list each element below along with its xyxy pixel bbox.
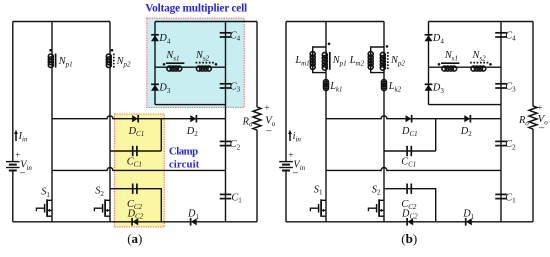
capacitor C_C2 (a) [132,184,134,194]
svg-text:Iin: Iin [18,131,28,143]
diode D_C2 (a) on bottom rail [132,218,138,225]
polarity dot N_p1 (b) [328,43,331,46]
inductor L_k2 (b) [382,80,387,85]
svg-text:C2: C2 [230,139,241,151]
diode D4 (b) [425,34,433,36]
wire: (a) multiplier cell top rail to output [155,21,257,23]
svg-text:C4: C4 [505,30,516,42]
wire: (b) output rail [532,22,534,107]
wire: clamp junction vertical D_C1-C_C1 (a) [160,119,162,151]
svg-text:D1: D1 [187,209,199,221]
svg-text:C1: C1 [505,192,516,204]
svg-text:S2: S2 [372,184,381,196]
svg-text:+: + [288,150,293,160]
svg-text:D1: D1 [462,209,474,221]
svg-text:(b): (b) [401,231,417,246]
svg-text:Ro: Ro [518,115,529,127]
polarity dot N_s1 (a) [163,63,166,66]
switch S2 (b) [378,199,380,217]
wire: (a) multiplier bottom row [155,104,226,106]
current arrow I_in (a) [15,132,17,141]
wire C: middle output row (b) with hop over S2 branch [326,167,501,170]
capacitor C3 (a) [220,83,232,85]
diode D4 (a) [151,34,159,36]
wire C: middle output row (a) with hop over S2 branch [52,168,226,171]
diode D_C1 (b) [406,115,412,122]
winding N_p1 (a) [48,54,53,59]
polarity dot N_p2 (b) [386,45,389,48]
wire B: C_C1 row (b) [384,150,436,152]
svg-text:Ro: Ro [242,116,253,128]
wire: (b) magnetizing branch L_m1 [313,47,326,73]
svg-text:Np2: Np2 [390,55,405,67]
wire: (a) phase-2 branch vertical (N_p2 / S2) [109,22,111,222]
winding N_p1 (b) [322,52,327,57]
wire: (b) multiplier middle row [429,66,502,68]
svg-text:Lk1: Lk1 [329,81,342,93]
wire: (a) capacitor rail [225,22,227,222]
wire A: clamp/diode row (b) with hop over S2 branch [326,116,501,119]
capacitor C1 (b) [495,193,507,195]
svg-text:C2: C2 [505,139,516,151]
wire: clamp junction vertical (b) [435,119,437,151]
capacitor C2 (a) [220,140,232,142]
svg-text:Lm2: Lm2 [349,55,365,67]
current arrow i_in (b) [289,132,291,141]
svg-text:+: + [264,103,269,113]
svg-text:D3: D3 [432,83,444,95]
svg-text:Np1: Np1 [58,56,73,68]
svg-text:Lm1: Lm1 [294,55,309,67]
wire: (a) multiplier middle row [155,66,226,68]
load resistor R_o (a) [253,107,261,130]
switch S1 (b) [320,199,322,217]
switch S1 (a) [46,199,48,217]
load resistor R_o (b) [529,106,537,129]
diode D3 (a) [151,83,159,85]
winding N_s1 (a) [167,66,172,71]
wire: (a) phase-1 branch vertical (N_p1 / S1) [51,22,53,222]
capacitor C3 (b) [495,83,507,85]
wire A: clamp/diode row (a) with hop over S2 branch [52,116,226,119]
wire: (b) phase-2 branch vertical [383,22,385,222]
diode D3 (b) [425,83,433,85]
svg-text:S1: S1 [314,184,323,196]
svg-text:Np2: Np2 [116,56,131,68]
highlight box: voltage multiplier cell (cyan) [147,18,244,107]
switch S2 (a) [104,199,106,217]
polarity dot N_p2 (a) [111,49,114,52]
capacitor C1 (a) [220,193,232,195]
capacitor C_C1 (a) [132,146,134,156]
diode D1 (a) on bottom rail [191,218,197,225]
capacitor C4 (b) [495,32,507,34]
diode D1 (b) on bottom rail [466,218,472,225]
capacitor C4 (a) [220,32,232,34]
svg-text:(a): (a) [127,231,142,246]
svg-text:Ns1: Ns1 [444,50,458,62]
wire D: C_C2 row (a) [110,189,161,222]
diode D2 (b) [464,115,470,122]
wire: (a) output rail [256,22,258,108]
svg-text:S1: S1 [41,187,50,199]
svg-text:DC1: DC1 [401,126,418,138]
wire: (b) magnetizing branch L_m2 [371,47,384,73]
diode D2 (a) [190,115,196,122]
wire: (a) bottom rail [13,221,257,223]
svg-text:Lk2: Lk2 [388,81,402,93]
svg-text:−: − [19,167,25,179]
diode D_C2 (b) on bottom rail [407,218,413,225]
diode D_C1 (a) [132,115,138,122]
svg-text:−: − [292,167,298,179]
wire: (b) bottom rail [286,221,533,223]
capacitor C2 (b) [495,140,507,142]
winding N_s2 (a) [197,66,202,71]
winding N_p2 (b) [380,52,385,57]
polarity dot N_s2 (a) [215,63,218,66]
svg-text:Voltage multiplier cell: Voltage multiplier cell [145,2,247,14]
inductor L_m2 (b) [368,52,373,57]
wire: (b) multiplier cell top rail to output [429,21,534,23]
capacitor C_C1 (b) [406,146,408,156]
svg-text:C1: C1 [231,192,242,204]
svg-text:CC1: CC1 [401,156,416,168]
highlight box: clamp circuit (yellow) [114,114,164,227]
polarity dot N_p1 (a) [49,49,52,52]
svg-text:−: − [539,122,545,134]
wire: (a) top rail [13,21,110,23]
svg-text:+: + [15,150,20,160]
polarity dot N_s1 (b) [438,63,441,66]
wire: (a) left rail with battery gap [12,22,14,162]
battery V_in (a) [6,161,20,163]
winding N_p2 (a) [106,54,111,59]
inductor L_k1 (b) [324,80,329,85]
svg-text:−: − [266,125,272,137]
wire: (b) multiplier bottom row [429,104,502,106]
wire: (b) phase-1 branch vertical [325,22,327,222]
wire: (b) top rail [286,21,384,23]
winding N_s1 (b) [442,66,447,71]
wire: (b) capacitor rail [500,22,502,222]
wire B: C_C1 row (a) [110,150,161,152]
wire: (b) left rail with battery gap [285,22,287,162]
battery V_in (b) [279,161,293,163]
svg-text:D4: D4 [432,33,444,45]
winding N_s2 (b) [471,66,476,71]
wire: (a) multiplier diode rail [154,22,156,105]
inductor L_m1 (b) [310,52,315,57]
svg-text:Clamp: Clamp [169,145,198,157]
wire: (b) multiplier diode rail [428,22,430,105]
svg-text:iin: iin [293,131,302,143]
svg-text:D2: D2 [186,126,198,138]
svg-text:C3: C3 [505,81,516,93]
svg-text:Np1: Np1 [332,55,347,67]
svg-text:S2: S2 [95,186,104,198]
svg-text:+: + [537,102,542,112]
wire D: C_C2 row (b) [384,189,436,222]
svg-text:Ns2: Ns2 [472,50,487,62]
polarity dot N_s2 (b) [489,63,492,66]
svg-text:circuit: circuit [169,158,200,170]
capacitor C_C2 (b) [406,184,408,194]
svg-text:D2: D2 [460,126,472,138]
